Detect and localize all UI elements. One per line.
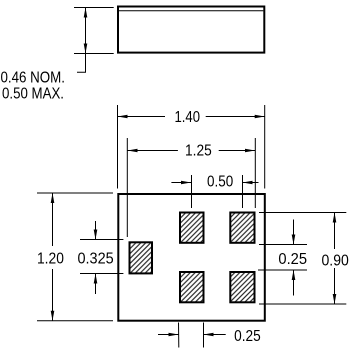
dim 1.25 line left segment	[128, 150, 178, 152]
svg-text:0.25: 0.25	[234, 328, 261, 345]
dim 1.25 right extension line	[254, 138, 256, 208]
dim 0.325 bottom extension line	[80, 273, 123, 275]
dim 1.40 left extension line	[117, 105, 119, 189]
pad left (hatched)	[130, 242, 153, 273]
dim 0.25 bottom left arrow line	[158, 334, 179, 336]
dim 0.25 right upper arrow head	[292, 235, 296, 245]
right side bottom extension line	[259, 303, 346, 305]
dim 0.25 right top extension line	[259, 244, 307, 246]
height dim arrow down	[84, 44, 88, 54]
dim 0.325 top extension line	[80, 239, 123, 241]
svg-text:0.46 NOM.: 0.46 NOM.	[1, 70, 66, 87]
dim 1.20 line lower segment	[52, 269, 54, 321]
dim 0.50 right extension line	[242, 175, 244, 208]
dim 1.25 line right segment	[219, 150, 255, 152]
side view body outline	[118, 7, 264, 53]
pad bottom-right (hatched)	[230, 272, 254, 302]
dim 0.50 arrow pointing right	[181, 181, 191, 185]
dim 0.25 bottom left extension line	[178, 323, 180, 348]
svg-text:0.90: 0.90	[322, 253, 349, 270]
dim 0.25 bottom right arrow line	[204, 334, 226, 336]
dim 0.25 bottom arrow pointing left	[204, 333, 214, 337]
dim 1.40 arrow right	[255, 115, 265, 119]
dim 0.25 right lower arrow head	[292, 270, 296, 280]
package body outline (top view)	[118, 194, 264, 321]
dim 0.50 line left segment	[171, 182, 191, 184]
height dim top extension line	[74, 7, 114, 9]
dim 1.20 top extension line	[37, 192, 113, 194]
pad top-left (hatched)	[180, 213, 204, 243]
svg-text:0.50: 0.50	[207, 174, 233, 191]
dim 1.25 left extension line	[126, 138, 128, 237]
dim 1.25 arrow left	[128, 149, 138, 153]
dim 1.40 right extension line	[264, 105, 266, 189]
dim 0.325 upper arrow head	[94, 230, 98, 240]
dim 0.50 line right segment	[243, 182, 259, 184]
dim 0.25 bottom arrow pointing right	[169, 333, 179, 337]
dim 0.325 lower arrow line	[95, 274, 97, 295]
dim 1.25 arrow right	[245, 149, 255, 153]
svg-text:0.25: 0.25	[278, 251, 307, 268]
dim 0.50 left extension line	[191, 175, 193, 208]
height dimension line	[85, 8, 87, 54]
dim 1.20 bottom extension line	[37, 320, 113, 322]
height dim bottom extension line	[74, 53, 114, 55]
dim 1.20 line upper segment	[52, 193, 54, 246]
dim 0.90 arrow up	[333, 213, 337, 223]
dim 0.50 arrow pointing left	[243, 181, 253, 185]
pad bottom-left (hatched)	[180, 272, 204, 302]
svg-text:0.50 MAX.: 0.50 MAX.	[2, 86, 64, 103]
dim 0.25 right bottom extension line	[258, 269, 307, 271]
dim 1.20 arrow up	[51, 193, 55, 203]
dim 0.25 right lower arrow line	[293, 270, 295, 296]
dim 0.325 lower arrow head	[94, 274, 98, 284]
height dim arrow up	[84, 8, 88, 18]
leader to height note	[77, 54, 86, 73]
dim 1.20 arrow down	[51, 311, 55, 321]
dim 0.25 right upper arrow line	[293, 220, 295, 245]
svg-text:1.25: 1.25	[185, 143, 212, 160]
side view lid seam line	[119, 10, 263, 12]
dim 0.90 arrow down	[333, 294, 337, 304]
dim 0.90 line lower segment	[334, 268, 336, 304]
svg-text:0.325: 0.325	[78, 251, 114, 268]
dim 0.90 line upper segment	[334, 213, 336, 250]
dim 0.25 bottom right extension line	[203, 323, 205, 348]
dim 1.40 line right segment	[206, 116, 265, 118]
right side top extension line	[259, 212, 346, 214]
dim 1.40 line left segment	[118, 116, 166, 118]
dim 0.325 upper arrow line	[95, 221, 97, 240]
pad top-right (hatched)	[230, 213, 254, 243]
svg-text:1.40: 1.40	[175, 109, 201, 126]
svg-text:1.20: 1.20	[37, 250, 64, 267]
dim 1.40 arrow left	[118, 115, 128, 119]
